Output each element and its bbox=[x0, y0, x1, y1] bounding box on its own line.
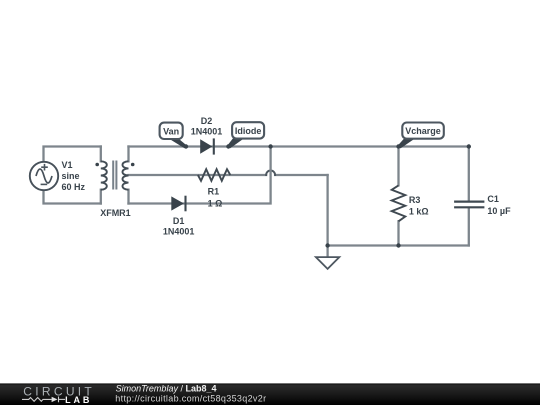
node dot: C1 top corner bbox=[467, 144, 471, 148]
node dot: Idiode bbox=[226, 144, 230, 148]
core bars bbox=[113, 161, 116, 190]
primary winding bbox=[101, 161, 107, 189]
node dot: R3 bottom bbox=[396, 243, 400, 247]
voltage source V1 bbox=[30, 162, 58, 190]
capacitor C1 bbox=[454, 202, 484, 208]
wire: hop over vertical bbox=[266, 171, 275, 176]
svg-text:D2: D2 bbox=[201, 116, 213, 126]
flag Vcharge bbox=[398, 123, 444, 149]
wire: middle tap wire right of hop bbox=[275, 174, 328, 176]
flag Van bbox=[160, 123, 188, 149]
resistor R3 bbox=[392, 185, 406, 221]
wire: C1 branch bbox=[468, 147, 470, 246]
svg-text:V1: V1 bbox=[62, 160, 73, 170]
footer bar bbox=[0, 383, 540, 405]
svg-text:R3: R3 bbox=[409, 195, 421, 205]
flag Idiode bbox=[227, 122, 264, 148]
transformer XFMR1 bbox=[95, 161, 134, 190]
wire: top rail bbox=[129, 145, 469, 147]
svg-text:sine: sine bbox=[62, 171, 80, 181]
svg-text:1N4001: 1N4001 bbox=[191, 126, 223, 136]
wire: V1 loop left+top+bottom bbox=[44, 147, 101, 204]
ground bbox=[316, 246, 339, 269]
wire: primary bottom stub bbox=[100, 190, 102, 204]
secondary winding bbox=[123, 161, 129, 189]
svg-text:1N4001: 1N4001 bbox=[163, 226, 195, 236]
svg-text:Idiode: Idiode bbox=[235, 126, 262, 136]
svg-text:Van: Van bbox=[163, 126, 179, 136]
svg-text:XFMR1: XFMR1 bbox=[100, 208, 131, 218]
wire: primary top stub bbox=[100, 147, 102, 162]
svg-text:1 kΩ: 1 kΩ bbox=[409, 207, 429, 217]
wire: middle tap wire left of hop bbox=[129, 174, 267, 176]
wire: secondary bottom stub bbox=[127, 190, 129, 204]
svg-text:LAB: LAB bbox=[65, 395, 92, 405]
node dot: Vcharge bbox=[396, 144, 400, 148]
svg-text:1 Ω: 1 Ω bbox=[208, 199, 223, 209]
svg-text:60 Hz: 60 Hz bbox=[62, 182, 86, 192]
diode D2 bbox=[200, 138, 214, 154]
svg-text:10 µF: 10 µF bbox=[487, 206, 511, 216]
svg-text:C1: C1 bbox=[487, 194, 499, 204]
svg-text:Vcharge: Vcharge bbox=[405, 126, 441, 136]
primary polarity dot bbox=[95, 163, 99, 167]
secondary polarity dot bbox=[131, 163, 135, 167]
svg-text:R1: R1 bbox=[208, 186, 220, 196]
node dot: Van bbox=[184, 144, 188, 148]
svg-text:D1: D1 bbox=[173, 216, 185, 226]
wire: secondary top stub bbox=[127, 147, 129, 162]
node dot: D1 junction bbox=[268, 144, 272, 148]
diode D1 bbox=[171, 196, 185, 212]
wire: middle wire down to ground rail bbox=[326, 175, 328, 246]
svg-text:SimonTremblay / Lab8_4: SimonTremblay / Lab8_4 bbox=[116, 383, 217, 393]
footer logo resistor-diode symbol bbox=[22, 397, 65, 403]
wire: R3 branch bbox=[397, 147, 399, 246]
wire: bottom rail bbox=[328, 244, 469, 246]
svg-text:http://circuitlab.com/ct58q353: http://circuitlab.com/ct58q353q2v2r bbox=[115, 394, 266, 404]
resistor R1 bbox=[198, 169, 230, 181]
wire: D1 bottom path bbox=[129, 147, 271, 204]
node dot: ground junction bbox=[325, 243, 329, 247]
